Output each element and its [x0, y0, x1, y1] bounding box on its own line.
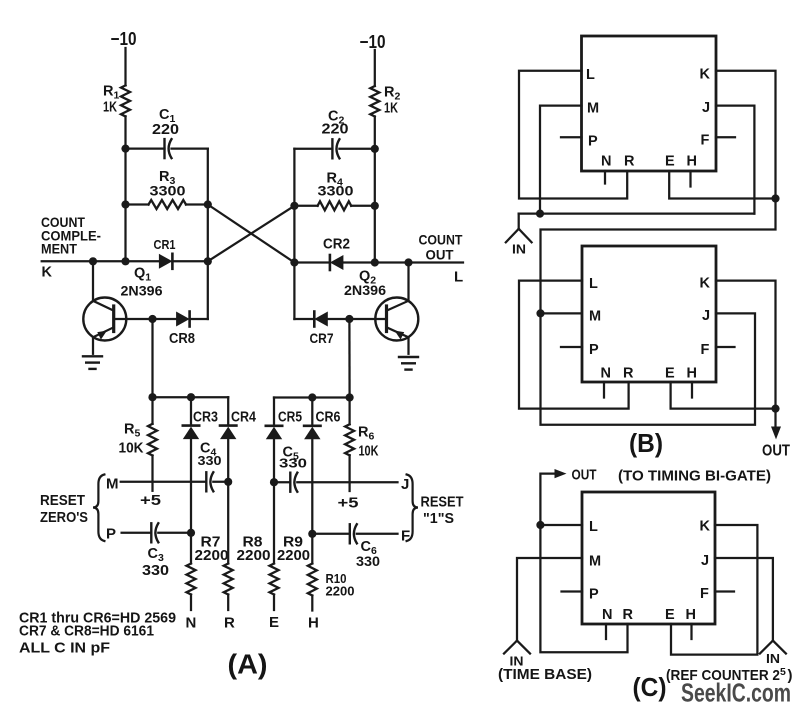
node junction K R1	[121, 257, 129, 265]
wire CR5 lead	[273, 398, 275, 426]
svg-text:IN: IN	[512, 242, 526, 257]
node junction CR1 right	[204, 257, 212, 265]
label R4 value 3300	[318, 183, 354, 199]
wire CR8 to right loop	[190, 318, 208, 320]
node junction R3 right	[204, 200, 212, 208]
svg-text:H: H	[687, 366, 698, 382]
label terminal L	[454, 269, 464, 286]
wire F row right	[357, 533, 398, 535]
wire F row left	[312, 533, 350, 535]
svg-text:OUT: OUT	[572, 467, 597, 484]
ground Q2	[399, 357, 418, 370]
svg-text:H: H	[308, 615, 319, 632]
svg-text:CR2: CR2	[323, 237, 350, 253]
wire C M lead	[517, 558, 582, 641]
svg-text:CR3: CR3	[193, 410, 218, 426]
wire R8 to R	[227, 595, 229, 611]
resistor R4	[318, 201, 352, 210]
label OUT C	[572, 467, 597, 484]
svg-text:K: K	[700, 67, 711, 83]
label R5	[124, 422, 140, 440]
wire R1 down to CR1 row	[124, 116, 126, 261]
wire R5 top lead	[151, 397, 153, 424]
brace reset zeros	[93, 475, 104, 542]
svg-text:COUNT: COUNT	[419, 232, 463, 248]
wire B IN line	[519, 212, 755, 214]
svg-text:CR1: CR1	[154, 237, 176, 252]
svg-text:330: 330	[198, 453, 222, 468]
wire lower row right	[274, 396, 350, 398]
svg-text:R: R	[224, 615, 235, 632]
wire left loop vertical right half	[293, 149, 295, 319]
wire R7 to N	[190, 595, 192, 611]
label R2 value 1K	[384, 100, 398, 117]
wire B1 output to B2 MJ loop	[541, 199, 776, 425]
svg-text:CR7: CR7	[310, 330, 334, 346]
label R9 value 2200	[277, 547, 310, 564]
wire -10 to R2	[374, 50, 376, 86]
resistor R8	[224, 564, 233, 595]
label TIME BASE	[498, 666, 592, 683]
svg-text:(TIME BASE): (TIME BASE)	[498, 666, 592, 683]
wire B OUT drop	[774, 409, 776, 427]
pin labels B1	[586, 67, 711, 170]
label terminal N	[186, 615, 197, 632]
svg-text:K: K	[700, 519, 711, 535]
svg-text:+5: +5	[338, 496, 359, 512]
svg-text:(C): (C)	[633, 672, 667, 702]
label TO TIMING BI-GATE	[618, 468, 771, 485]
wire C L lead	[540, 524, 582, 526]
label CR5	[278, 410, 302, 426]
resistor R5	[148, 424, 157, 456]
wire CR3 lead	[190, 397, 192, 425]
wire R2 down to CR2 row	[374, 117, 376, 263]
label +5 left	[140, 493, 161, 509]
wire cross coupling diagonal 1	[208, 205, 295, 263]
wire J row right	[297, 481, 397, 483]
svg-text:2N396: 2N396	[121, 283, 163, 299]
resistor R6	[345, 424, 354, 455]
wire CR2 to count out	[343, 261, 463, 263]
stub C F	[715, 590, 734, 592]
wire Q2 collector vertical	[407, 263, 409, 301]
svg-text:−10: −10	[360, 32, 386, 52]
wire B2 E to K	[671, 382, 776, 409]
svg-text:H: H	[686, 607, 697, 623]
wire C2 row right	[339, 148, 374, 150]
label R5 value 10K	[119, 441, 144, 457]
svg-text:OUT: OUT	[762, 443, 790, 460]
label R8	[243, 534, 263, 551]
svg-text:F: F	[700, 586, 709, 602]
diode CR4	[220, 426, 236, 440]
svg-text:RESET: RESET	[421, 495, 464, 511]
svg-text:OUT: OUT	[426, 247, 454, 263]
note capacitor units	[19, 640, 110, 657]
wire R3 row right	[186, 203, 208, 205]
svg-text:MENT: MENT	[41, 241, 77, 257]
wire lower row left	[153, 396, 229, 398]
wire B1 L to R loop	[519, 71, 627, 199]
capacitor C4	[206, 472, 213, 491]
label RESET 1S	[421, 495, 464, 528]
stub B2 N	[603, 382, 605, 398]
node junction B2 M	[536, 309, 544, 317]
node junction Q1 base	[148, 315, 156, 323]
node junction P row right	[187, 529, 195, 537]
svg-text:220: 220	[152, 122, 179, 138]
svg-text:M: M	[589, 554, 602, 570]
label Q1	[134, 266, 151, 284]
svg-text:CR8: CR8	[169, 331, 195, 347]
label M	[106, 476, 119, 493]
label CR4	[231, 410, 256, 426]
output arrow B OUT	[771, 427, 781, 440]
label +5 right	[338, 496, 359, 512]
svg-text:ALL C IN pF: ALL C IN pF	[19, 640, 110, 657]
wire -10 to R1	[124, 48, 126, 85]
label COUNT COMPLEMENT	[41, 214, 101, 257]
label C1 value 220	[152, 122, 179, 138]
wire R4 row left	[294, 205, 317, 207]
label P	[106, 526, 117, 543]
wire C OUT riser	[540, 474, 555, 525]
wire count complement input	[42, 260, 159, 262]
svg-text:J: J	[702, 100, 711, 116]
node junction B1 output	[771, 194, 779, 202]
label CR7	[310, 330, 334, 346]
wire M row	[121, 481, 207, 483]
svg-text:CR5: CR5	[278, 410, 302, 426]
wire CR4 lead	[227, 397, 229, 425]
diode CR2	[330, 255, 344, 270]
brace reset ones	[407, 475, 418, 542]
svg-text:P: P	[106, 526, 117, 543]
wire B2 K lead	[716, 281, 776, 409]
stub B1 H	[689, 171, 691, 187]
svg-text:2200: 2200	[326, 585, 355, 599]
label C6 value 330	[356, 554, 380, 569]
wire B IN drop	[518, 214, 520, 229]
resistor R9	[270, 564, 279, 595]
label terminal E	[269, 614, 280, 631]
label R6 value 10K	[359, 444, 379, 460]
label Q2 type 2N396	[344, 282, 386, 298]
wire CR1 to right loop	[172, 260, 207, 262]
node junction M row right	[224, 478, 232, 486]
label R7	[201, 534, 221, 551]
resistor R7	[187, 564, 196, 595]
transistor Q2	[375, 298, 418, 341]
svg-text:10K: 10K	[119, 441, 144, 457]
svg-text:M: M	[589, 309, 602, 325]
svg-text:10K: 10K	[359, 444, 379, 460]
svg-text:E: E	[665, 154, 675, 170]
node junction R4 left	[290, 202, 298, 210]
label C4 value 330	[198, 453, 222, 468]
resistor R1	[121, 85, 130, 116]
stub B1 P	[561, 136, 582, 138]
stub B1 N	[604, 171, 606, 184]
label C6	[361, 539, 377, 557]
wire C1 row right	[172, 147, 208, 149]
wire R3 row left	[126, 203, 149, 205]
wire C K to E loop	[671, 525, 757, 655]
wire B1 M lead	[540, 106, 582, 214]
svg-text:P: P	[589, 587, 599, 603]
label R10 value 2200	[326, 585, 355, 599]
capacitor C3	[151, 523, 158, 542]
wire CR4 to M row	[227, 440, 229, 482]
label figure C	[633, 672, 667, 702]
wire CR7 to Q2 base	[328, 318, 387, 320]
output arrow C OUT	[555, 469, 567, 478]
note diode types	[19, 610, 176, 640]
resistor R10	[308, 564, 317, 596]
pin labels C	[589, 519, 711, 624]
diode CR8	[176, 312, 190, 327]
svg-text:330: 330	[279, 456, 307, 471]
svg-text:1K: 1K	[384, 100, 398, 117]
wire R6 bottom +5 stub	[348, 455, 350, 491]
svg-text:F: F	[701, 133, 710, 149]
svg-text:2200: 2200	[237, 547, 271, 564]
wire CR7 row left	[294, 318, 314, 320]
diode CR3	[183, 426, 199, 440]
svg-text:2200: 2200	[195, 547, 229, 564]
svg-text:"1"S: "1"S	[423, 511, 454, 527]
wire C1 row left	[126, 147, 165, 149]
wire R4 row right	[351, 205, 375, 207]
wire cross coupling diagonal 2	[208, 206, 295, 261]
svg-text:E: E	[665, 366, 675, 382]
capacitor C1	[165, 139, 172, 158]
wire right loop vertical left half	[207, 149, 209, 319]
svg-text:K: K	[700, 276, 711, 292]
wire C J lead	[715, 558, 773, 641]
node junction C L	[536, 521, 544, 529]
svg-text:CR6: CR6	[316, 410, 341, 426]
svg-text:2N396: 2N396	[344, 282, 386, 298]
wire CR6 to F row	[311, 440, 313, 534]
wire B2 L to R loop	[519, 281, 629, 409]
label C3	[148, 546, 164, 564]
wire Q2 base down	[348, 319, 350, 398]
node junction R2/C2	[371, 145, 379, 153]
resistor R3	[149, 200, 187, 209]
svg-text:N: N	[602, 607, 613, 623]
wire P row	[122, 532, 152, 534]
stub B1 F	[716, 136, 735, 138]
node junction Q2 base	[345, 315, 353, 323]
wire CR3 to P row	[190, 440, 192, 533]
capacitor C5	[290, 473, 297, 492]
input IN B	[506, 229, 532, 243]
stub B2 P	[561, 346, 582, 348]
svg-text:220: 220	[322, 122, 349, 138]
svg-text:5: 5	[780, 666, 786, 678]
svg-text:R: R	[623, 607, 634, 623]
svg-text:H: H	[687, 154, 698, 170]
wire R9 top lead	[273, 482, 275, 563]
label C5	[283, 445, 299, 463]
label CR1	[154, 237, 176, 252]
diode CR5	[266, 426, 282, 440]
label OUT B	[762, 443, 790, 460]
label R1 value 1K	[103, 99, 117, 116]
node junction B2 output	[771, 405, 779, 413]
node junction R4 right	[371, 202, 379, 210]
label R3	[159, 169, 175, 187]
wire Q1 base to CR8	[114, 318, 176, 320]
wire B1 E to K	[669, 171, 775, 199]
node junction CR6 top	[308, 393, 316, 401]
svg-text:L: L	[586, 67, 595, 83]
svg-text:E: E	[269, 614, 280, 631]
svg-text:F: F	[701, 342, 710, 358]
wire B1 K lead	[716, 71, 776, 199]
label Q1 type 2N396	[121, 283, 163, 299]
watermark SeekIC.com	[681, 678, 791, 708]
wire Q1 collector vertical	[92, 261, 94, 301]
label CR6	[316, 410, 341, 426]
label IN B	[512, 242, 526, 257]
label figure A	[228, 649, 268, 680]
label C2	[328, 109, 344, 127]
label CR3	[193, 410, 218, 426]
label CR8	[169, 331, 195, 347]
svg-text:P: P	[588, 134, 598, 150]
input IN C ref counter	[760, 641, 786, 654]
label REF COUNTER	[666, 666, 793, 684]
stub C P	[562, 590, 583, 592]
svg-text:J: J	[401, 476, 410, 493]
wire CR2 row left	[294, 261, 330, 263]
svg-text:L: L	[589, 276, 598, 292]
svg-text:CR7 & CR8=HD 6161: CR7 & CR8=HD 6161	[19, 624, 154, 640]
label R2	[384, 85, 400, 103]
svg-text:CR4: CR4	[231, 410, 256, 426]
svg-text:2200: 2200	[277, 547, 310, 564]
wire R10 to H	[311, 596, 313, 611]
node junction K base	[89, 257, 97, 265]
svg-text:ZERO'S: ZERO'S	[40, 510, 88, 526]
node junction Q2 collector	[404, 258, 412, 266]
diode CR6	[304, 426, 320, 440]
wire C L to R loop	[540, 525, 627, 652]
label R6	[358, 425, 374, 443]
wire Q1 base down	[151, 319, 153, 397]
label RESET ZEROS	[40, 493, 88, 526]
label CR2	[323, 237, 350, 253]
resistor R2	[370, 86, 379, 117]
capacitor C2	[332, 139, 339, 158]
node junction J row left	[270, 478, 278, 486]
label IN timebase	[510, 654, 524, 669]
node junction lower row right	[346, 393, 354, 401]
svg-text:−10: −10	[111, 29, 137, 49]
label C3 value 330	[142, 563, 169, 579]
wire R10 top lead	[311, 534, 313, 564]
label Q2	[359, 269, 376, 287]
wire J row left	[274, 481, 290, 483]
node -10 supply right	[360, 32, 386, 52]
svg-text:RESET: RESET	[40, 493, 85, 509]
svg-text:L: L	[454, 269, 464, 286]
svg-text:330: 330	[356, 554, 380, 569]
label R8 value 2200	[237, 547, 271, 564]
label C5 value 330	[279, 456, 307, 471]
wire CR5 to J row	[273, 440, 275, 482]
label terminal R	[224, 615, 235, 632]
label R1	[103, 84, 119, 102]
node junction F row left	[308, 530, 316, 538]
stub B2 H	[691, 382, 693, 398]
label F	[401, 528, 411, 545]
label COUNT OUT	[419, 232, 463, 263]
node junction CR2 R2	[371, 258, 379, 266]
svg-text:R: R	[623, 366, 634, 382]
label C2 value 220	[322, 122, 349, 138]
wire CR6 lead	[311, 398, 313, 426]
node junction R3 left	[121, 200, 129, 208]
wire Q2 emitter to ground	[407, 337, 409, 354]
svg-text:P: P	[589, 342, 599, 358]
svg-text:N: N	[601, 154, 612, 170]
ground Q1	[83, 356, 102, 369]
diode CR7	[314, 312, 328, 327]
svg-text:3300: 3300	[150, 183, 186, 199]
flip-flop block C	[582, 492, 715, 624]
label C1	[159, 107, 175, 125]
wire B2 M lead	[541, 312, 582, 314]
node junction R1/C1	[121, 145, 129, 153]
svg-text:N: N	[186, 615, 197, 632]
svg-text:3300: 3300	[318, 183, 354, 199]
svg-text:J: J	[702, 308, 711, 324]
node junction lower row left	[148, 393, 156, 401]
transistor Q1	[83, 298, 126, 341]
svg-text:1K: 1K	[103, 99, 117, 116]
label J	[401, 476, 410, 493]
label terminal H	[308, 615, 319, 632]
stub C N	[605, 624, 607, 639]
svg-text:M: M	[106, 476, 119, 493]
label R10	[326, 572, 347, 586]
label C4	[200, 441, 216, 459]
wire R6 top lead	[348, 398, 350, 425]
label R9	[283, 534, 303, 551]
wire R8 section	[227, 482, 229, 564]
svg-text:N: N	[601, 366, 612, 382]
svg-text:E: E	[665, 607, 675, 623]
label figure B	[629, 428, 663, 458]
label R3 value 3300	[150, 183, 186, 199]
svg-text:SeekIC.com: SeekIC.com	[681, 678, 791, 708]
node junction CR3 top	[187, 393, 195, 401]
flip-flop block B2	[582, 246, 716, 382]
wire Q1 emitter to ground	[92, 337, 94, 354]
label R4	[327, 171, 343, 189]
pin labels B2	[589, 276, 711, 382]
wire R5 bottom +5 stub	[151, 456, 153, 491]
svg-text:IN: IN	[766, 651, 780, 666]
wire R7 top lead	[190, 533, 192, 564]
wire C4 to CR4	[213, 481, 228, 483]
svg-text:R: R	[624, 154, 635, 170]
svg-text:(TO TIMING BI-GATE): (TO TIMING BI-GATE)	[618, 468, 771, 485]
